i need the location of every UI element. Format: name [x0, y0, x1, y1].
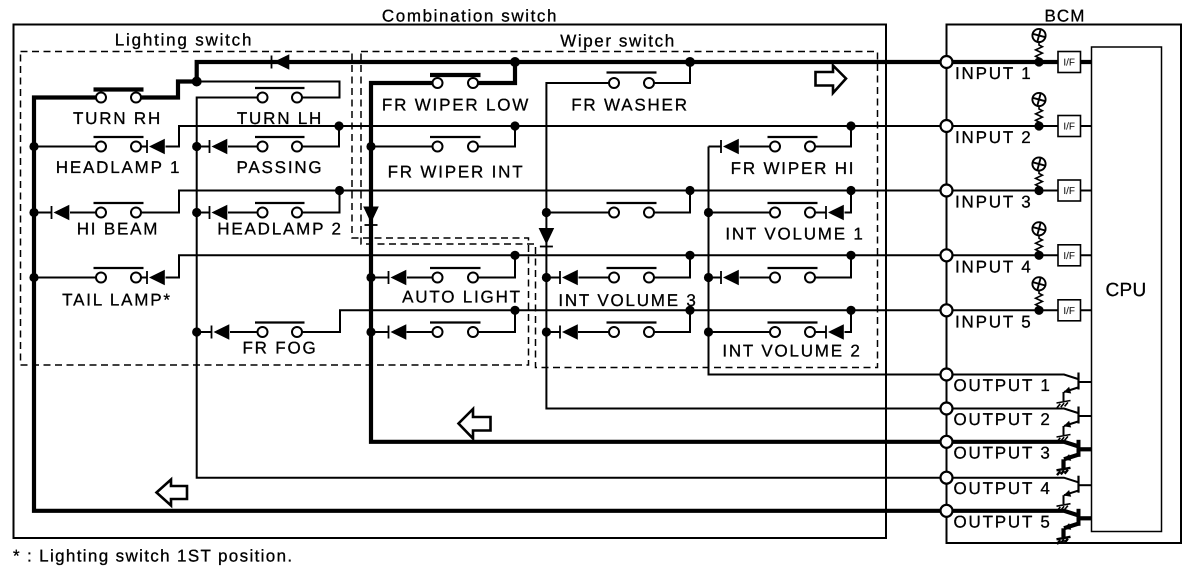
- wire FR WASHER right leg: [655, 62, 690, 83]
- svg-text:INT VOLUME 3: INT VOLUME 3: [558, 291, 697, 310]
- wire: [197, 146, 210, 148]
- wire INT VOLUME 1 left: [709, 212, 771, 214]
- svg-text:TURN LH: TURN LH: [237, 109, 323, 128]
- wire AUTO LIGHT left: [407, 277, 433, 279]
- wire INT VOLUME 3 right leg: [654, 255, 690, 277]
- ground OUTPUT 4: [1057, 504, 1071, 511]
- svg-text:OUTPUT 3: OUTPUT 3: [954, 443, 1052, 462]
- wire HI BEAM to INPUT 3 rail: [141, 191, 946, 213]
- wire lower mid switch left: [578, 331, 609, 333]
- wire transistor Q5 base to CPU: [1079, 516, 1092, 520]
- node FR WASHER to INPUT1: [685, 57, 695, 67]
- power symbol INPUT 5: [1032, 277, 1045, 290]
- switch FR WIPER LOW: [430, 75, 481, 88]
- wire AUTO LIGHT right leg: [478, 255, 515, 277]
- switch HEADLAMP 2: [255, 203, 305, 218]
- wire: [197, 331, 212, 333]
- wire: [815, 212, 826, 214]
- wire transistor Q3 base to CPU: [1079, 447, 1092, 451]
- switch HEADLAMP 1: [94, 137, 144, 152]
- switch HI BEAM: [94, 203, 144, 218]
- junction: [685, 251, 694, 260]
- junction: [335, 186, 344, 195]
- wire OUTPUT 1 collector feed: [946, 375, 1078, 380]
- svg-text:FR FOG: FR FOG: [242, 339, 317, 358]
- svg-text:FR WIPER INT: FR WIPER INT: [388, 163, 525, 182]
- ground OUTPUT 1: [1057, 401, 1071, 408]
- wire TURN LH upper loop: [197, 82, 340, 98]
- switch FR WIPER HI: [768, 137, 818, 152]
- svg-text:INPUT 4: INPUT 4: [955, 257, 1032, 276]
- power symbol INPUT 1: [1032, 29, 1045, 42]
- wire: [546, 277, 560, 279]
- diode INT VOLUME 3: [560, 270, 578, 285]
- svg-text:OUTPUT 2: OUTPUT 2: [954, 410, 1052, 429]
- junction: [685, 186, 694, 195]
- wire FR WIPER HI right leg: [815, 126, 851, 147]
- wire OUTPUT 4 collector feed: [946, 478, 1078, 483]
- lighting switch dashed box: [21, 52, 529, 366]
- junction: [685, 306, 694, 315]
- wire OUTPUT 2 collector feed: [946, 409, 1078, 414]
- wire OUTPUT 3 collector feed: [946, 442, 1078, 447]
- wire: [546, 331, 560, 333]
- wire OUTPUT 5 collector feed: [946, 511, 1078, 516]
- switch wiper mid: [607, 203, 657, 218]
- junction: [542, 327, 551, 336]
- svg-text:TURN RH: TURN RH: [73, 109, 162, 128]
- diode PASSING: [210, 139, 228, 154]
- arrow left upper (open): [459, 409, 491, 439]
- wire INPUT 2 inside BCM: [946, 125, 1092, 127]
- diode lower mid: [560, 324, 578, 339]
- junction: [510, 251, 519, 260]
- wire FR WIPER HI vertical to OUTPUT 1 rail: [709, 147, 947, 375]
- wire FR WIPER INT right leg: [478, 126, 515, 147]
- wire FR WIPER INT left: [371, 146, 433, 148]
- svg-text:I/F: I/F: [1063, 186, 1075, 197]
- wire HI BEAM left: [70, 212, 96, 214]
- wire: [197, 212, 210, 214]
- wiper switch dashed box: [361, 52, 878, 368]
- switch lower left: [430, 323, 481, 338]
- junction: [192, 327, 201, 336]
- node INPUT 1 junction: [1034, 57, 1043, 66]
- wire transistor Q1 base to CPU: [1079, 381, 1092, 383]
- node INPUT 3 junction: [1034, 186, 1043, 195]
- svg-text:TAIL LAMP*: TAIL LAMP*: [62, 291, 172, 310]
- junction: [510, 306, 519, 315]
- junction: [334, 121, 343, 130]
- resistor INPUT 4 pull-up: [1036, 235, 1043, 255]
- transistor Q1 emitter: [1064, 387, 1079, 401]
- junction: [846, 306, 855, 315]
- node INPUT 2 junction: [1034, 121, 1043, 130]
- wire HEADLAMP 1 left: [34, 146, 96, 148]
- junction: [192, 142, 201, 151]
- switch FR WASHER: [607, 73, 657, 89]
- connector OUTPUT 1: [941, 369, 953, 381]
- wire TAIL LAMP left: [34, 277, 96, 279]
- wire: [371, 277, 389, 279]
- svg-text:FR WIPER HI: FR WIPER HI: [731, 159, 856, 178]
- power symbol INPUT 4: [1032, 222, 1045, 235]
- junction: [192, 208, 201, 217]
- combination switch box: [14, 25, 887, 539]
- switch TURN RH: [94, 90, 144, 103]
- wire INT VOLUME 1 right leg: [845, 191, 852, 213]
- switch PASSING: [255, 137, 305, 152]
- transistor Q2 emitter: [1064, 421, 1079, 435]
- svg-text:* : Lighting switch 1ST positi: * : Lighting switch 1ST position.: [13, 547, 293, 566]
- wire TURN LH left / vertical to OUTPUT 4 rail: [197, 98, 946, 478]
- diode on bold vertical: [363, 207, 379, 226]
- wire HEADLAMP 2 right leg: [302, 191, 340, 213]
- wire: [815, 331, 826, 333]
- wire transistor Q2 base to CPU: [1079, 415, 1092, 417]
- transistor Q4 emitter: [1064, 490, 1079, 504]
- svg-text:INT VOLUME 1: INT VOLUME 1: [725, 225, 864, 244]
- wire: [709, 277, 722, 279]
- diode HEADLAMP 1: [147, 139, 165, 154]
- svg-text:OUTPUT 5: OUTPUT 5: [954, 512, 1052, 531]
- switch lower mid: [607, 323, 657, 338]
- junction: [704, 208, 713, 217]
- svg-text:I/F: I/F: [1063, 58, 1075, 69]
- node INPUT 4 junction: [1034, 251, 1043, 260]
- switch TURN LH: [255, 88, 305, 103]
- switch FR FOG: [255, 323, 305, 338]
- junction: [846, 251, 855, 260]
- junction: [704, 327, 713, 336]
- wire FR WASHER left / vertical to OUTPUT 2 rail: [546, 83, 946, 409]
- transistor Q1 base bar: [1077, 373, 1079, 390]
- wire: [141, 146, 147, 148]
- connector OUTPUT 4: [941, 472, 953, 484]
- resistor INPUT 5 pull-up: [1036, 290, 1043, 310]
- connector OUTPUT 2: [941, 403, 953, 415]
- transistor Q5 emitter: [1064, 523, 1079, 537]
- junction: [366, 273, 375, 282]
- resistor INPUT 3 pull-up: [1036, 171, 1043, 191]
- wire FR FOG left: [230, 331, 258, 333]
- wire INPUT 3 inside BCM: [946, 190, 1092, 192]
- diode INT VOLUME 1: [826, 205, 844, 220]
- I/F box INPUT 3: [1058, 180, 1081, 201]
- diode INT VOLUME 2: [826, 324, 844, 339]
- arrow right (open): [816, 66, 847, 94]
- transistor Q3 emitter: [1064, 454, 1079, 468]
- wire INT VOLUME 2 left: [709, 331, 771, 333]
- svg-text:I/F: I/F: [1063, 306, 1075, 317]
- svg-text:HEADLAMP 2: HEADLAMP 2: [217, 220, 342, 239]
- diode HI BEAM: [52, 205, 70, 220]
- wire FR WIPER HI left: [740, 146, 771, 148]
- svg-text:INT VOLUME 2: INT VOLUME 2: [722, 342, 861, 361]
- switch INT VOLUME 2: [768, 323, 818, 338]
- diode AUTO LIGHT: [389, 270, 407, 285]
- wire mid switch left: [546, 212, 609, 214]
- node FR WIPER LOW to INPUT1: [510, 57, 520, 67]
- connector OUTPUT 5: [941, 505, 953, 517]
- diode FR FOG: [212, 324, 230, 339]
- wire: [34, 212, 52, 214]
- diode right mid: [721, 270, 739, 285]
- svg-text:INPUT 3: INPUT 3: [955, 193, 1032, 212]
- svg-text:HEADLAMP 1: HEADLAMP 1: [56, 158, 181, 177]
- switch TAIL LAMP: [94, 268, 144, 283]
- ground OUTPUT 3: [1057, 468, 1071, 475]
- svg-text:HI BEAM: HI BEAM: [77, 220, 160, 239]
- transistor Q3 base bar: [1077, 440, 1081, 457]
- junction: [542, 208, 551, 217]
- wire INT VOLUME 3 left: [579, 277, 610, 279]
- wire mid switch right leg: [654, 191, 690, 213]
- wire INPUT 4 inside BCM: [946, 254, 1092, 256]
- connector INPUT 2: [941, 120, 953, 132]
- BCM box: [947, 25, 1182, 544]
- junction: [29, 142, 38, 151]
- diode on FR WASHER vertical: [539, 228, 555, 247]
- I/F box INPUT 2: [1058, 116, 1081, 137]
- power symbol INPUT 2: [1032, 93, 1045, 106]
- switch right mid: [768, 268, 818, 283]
- wire HEADLAMP 2 left: [228, 212, 258, 214]
- junction: [704, 273, 713, 282]
- wire bold OUTPUT5/TURN RH feed: [34, 98, 946, 511]
- resistor INPUT 2 pull-up: [1036, 106, 1043, 126]
- svg-text:I/F: I/F: [1063, 122, 1075, 133]
- wire INPUT 1 inside BCM: [946, 60, 1092, 64]
- wire lower mid switch right leg: [654, 310, 690, 332]
- wire PASSING left: [228, 146, 258, 148]
- transistor Q4 base bar: [1077, 476, 1079, 493]
- wire lower switch left: [407, 331, 433, 333]
- diode HEADLAMP 2: [210, 205, 228, 220]
- svg-text:Wiper switch: Wiper switch: [560, 32, 676, 51]
- wire right mid switch left: [740, 277, 771, 279]
- wire PASSING right leg: [302, 126, 339, 147]
- junction: [29, 208, 38, 217]
- wire lower switch right leg: [478, 310, 515, 332]
- wire bold TURN RH to INPUT 1 rail: [141, 62, 946, 98]
- connector INPUT 3: [941, 185, 953, 197]
- diode lower left: [389, 324, 407, 339]
- switch AUTO LIGHT: [430, 268, 481, 283]
- svg-text:Lighting switch: Lighting switch: [115, 31, 254, 50]
- wire FR FOG to INPUT 5 rail: [302, 310, 946, 332]
- I/F box INPUT 1: [1058, 52, 1081, 73]
- junction: [366, 327, 375, 336]
- svg-text:INPUT 1: INPUT 1: [955, 64, 1032, 83]
- diode FR WIPER HI: [721, 139, 739, 154]
- svg-text:FR WIPER LOW: FR WIPER LOW: [382, 96, 530, 115]
- node INPUT 5 junction: [1034, 306, 1043, 315]
- switch INT VOLUME 1: [768, 203, 818, 218]
- diode TAIL LAMP: [147, 270, 165, 285]
- I/F box INPUT 4: [1058, 245, 1081, 266]
- wire right mid switch right leg: [815, 255, 851, 277]
- wire HEADLAMP 1 to INPUT 2 rail: [166, 126, 947, 147]
- node TURN RH/LH junction: [192, 77, 202, 87]
- svg-text:OUTPUT 1: OUTPUT 1: [954, 376, 1052, 395]
- wire INPUT 5 inside BCM: [946, 309, 1092, 311]
- svg-text:FR WASHER: FR WASHER: [571, 96, 689, 115]
- svg-text:Combination switch: Combination switch: [382, 7, 558, 26]
- I/F box INPUT 5: [1058, 300, 1081, 321]
- junction: [29, 273, 38, 282]
- CPU box U1: [1092, 47, 1162, 532]
- switch INT VOLUME 3: [607, 268, 657, 283]
- svg-text:CPU: CPU: [1105, 280, 1146, 301]
- wire bold FR WIPER LOW right leg: [478, 62, 515, 83]
- junction: [366, 142, 375, 151]
- svg-text:OUTPUT 4: OUTPUT 4: [954, 479, 1052, 498]
- wire bold FR WIPER LOW to OUTPUT 3 rail: [371, 83, 946, 442]
- svg-text:INPUT 2: INPUT 2: [955, 128, 1032, 147]
- svg-text:INPUT 5: INPUT 5: [955, 312, 1032, 331]
- wire transistor Q4 base to CPU: [1079, 484, 1092, 486]
- svg-text:I/F: I/F: [1063, 251, 1075, 262]
- wire TAIL LAMP to INPUT 4 rail: [166, 255, 947, 277]
- transistor Q2 base bar: [1077, 407, 1079, 424]
- power symbol INPUT 3: [1032, 157, 1045, 170]
- transistor Q5 base bar: [1077, 509, 1081, 526]
- ground OUTPUT 2: [1057, 435, 1071, 442]
- wire: [709, 146, 722, 148]
- svg-text:BCM: BCM: [1044, 7, 1085, 26]
- svg-text:PASSING: PASSING: [237, 158, 324, 177]
- ground OUTPUT 5: [1057, 537, 1071, 544]
- switch FR WIPER INT: [430, 137, 481, 152]
- connector INPUT 4: [941, 249, 953, 261]
- junction: [846, 186, 855, 195]
- junction: [542, 273, 551, 282]
- arrow left lower (open): [157, 480, 188, 506]
- junction: [510, 121, 519, 130]
- wire INT VOLUME 2 right leg: [845, 310, 852, 332]
- resistor INPUT 1 pull-up: [1036, 42, 1043, 62]
- connector INPUT 5: [941, 304, 953, 316]
- junction: [846, 121, 855, 130]
- connector INPUT 1: [941, 56, 953, 68]
- wire: [141, 277, 147, 279]
- connector OUTPUT 3: [941, 436, 953, 448]
- diode on INPUT 1 rail: [272, 54, 290, 69]
- wire: [371, 331, 389, 333]
- svg-text:AUTO LIGHT: AUTO LIGHT: [402, 288, 522, 307]
